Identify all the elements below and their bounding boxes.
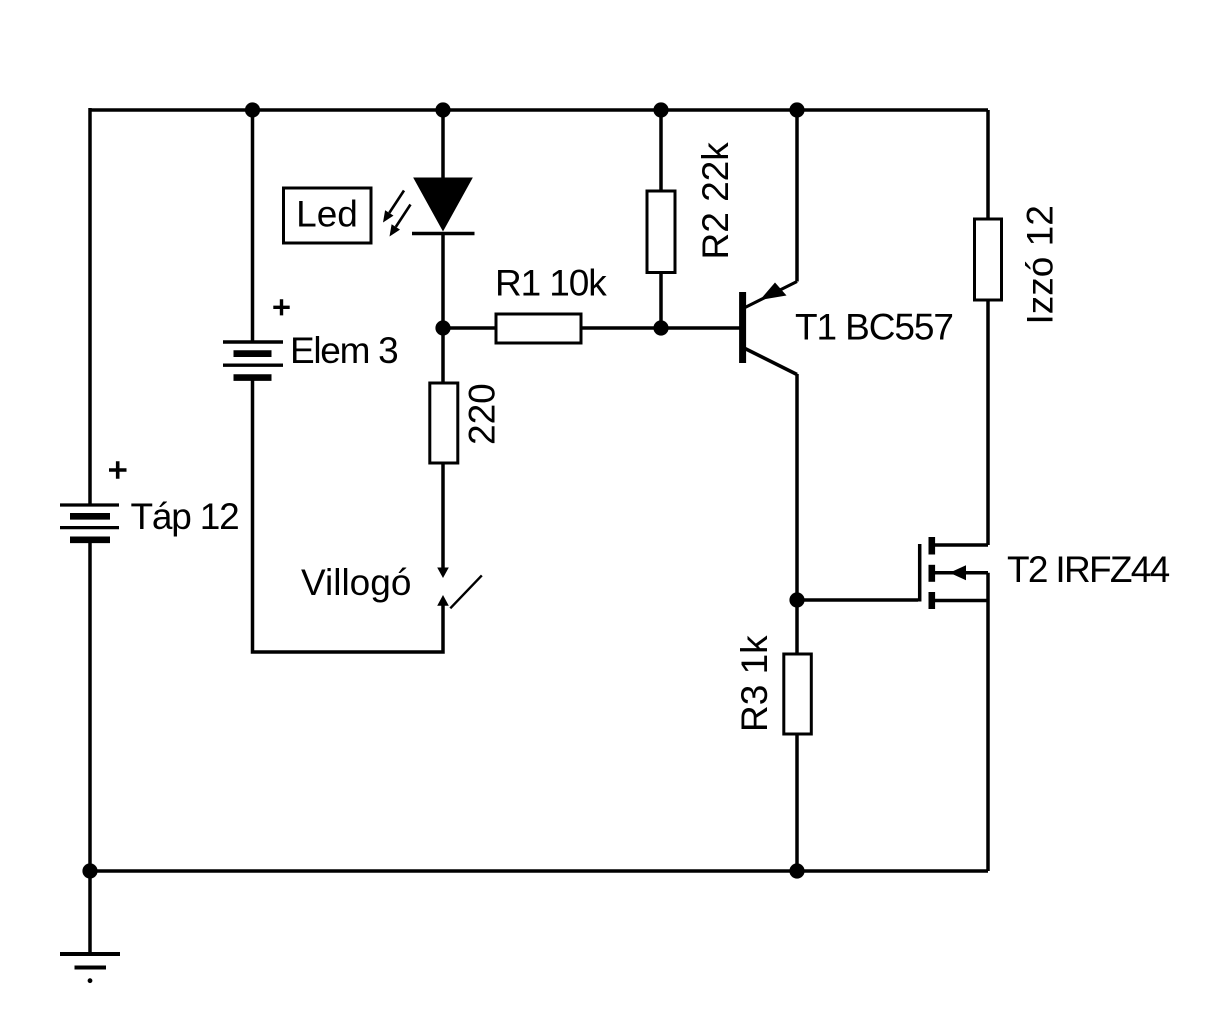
wire T2 source xyxy=(934,599,988,603)
switch Villogo xyxy=(437,568,482,609)
label T1 BC557 xyxy=(795,307,953,348)
wire T2 drain xyxy=(934,300,988,545)
wire left vertical (V+ to Tap battery) xyxy=(88,108,92,504)
battery Tap 12 xyxy=(60,505,119,540)
transistor T1 BC557 base bar xyxy=(739,292,746,363)
LED light arrow 1 xyxy=(383,191,404,223)
battery Elem 3 xyxy=(223,342,283,378)
svg-text:Villogó: Villogó xyxy=(301,562,411,603)
node bottom rail / R3 junction xyxy=(789,863,804,878)
wire top rail xyxy=(90,108,988,112)
resistor R2 22k xyxy=(647,142,736,273)
wire right vertical lower (source to bottom rail) xyxy=(986,573,990,871)
svg-text:Táp 12: Táp 12 xyxy=(131,496,239,537)
node top rail / R2 branch xyxy=(653,102,668,117)
svg-text:R1 10k: R1 10k xyxy=(495,263,607,304)
wire LED cathode down to node xyxy=(441,234,445,329)
wire gate lead xyxy=(797,598,918,602)
svg-text:T2 IRFZ44: T2 IRFZ44 xyxy=(1007,549,1170,590)
svg-text:Izzó 12: Izzó 12 xyxy=(1020,205,1061,324)
svg-text:T1 BC557: T1 BC557 xyxy=(795,307,953,348)
lamp Izzo 12 xyxy=(975,110,1061,325)
ground xyxy=(60,871,120,983)
wire top rail to LED anode xyxy=(441,110,445,179)
transistor T1 collector xyxy=(745,349,797,601)
node R1/R2/base junction xyxy=(653,320,668,335)
transistor T2 gate bar xyxy=(918,544,922,602)
node T1 collector / gate / R3 junction xyxy=(789,592,804,607)
LED diode xyxy=(412,178,475,234)
node top rail / T1 emitter xyxy=(789,102,804,117)
svg-text:Elem 3: Elem 3 xyxy=(290,330,397,371)
node top rail / LED branch xyxy=(435,102,450,117)
svg-text:Led: Led xyxy=(296,194,358,235)
wire Elem 3 branch upper xyxy=(251,110,255,342)
LED light arrow 2 xyxy=(390,205,411,237)
plus sign of Elem 3 xyxy=(273,299,289,315)
node LED/R1/220 junction xyxy=(435,320,450,335)
label Elem 3 xyxy=(290,330,397,371)
svg-text:R2 22k: R2 22k xyxy=(695,142,736,260)
resistor R1 10k xyxy=(495,263,607,344)
label T2 IRFZ44 xyxy=(1007,549,1170,590)
node bottom-left junction xyxy=(82,863,97,878)
transistor T1 emitter with arrow xyxy=(745,110,797,308)
wire R3 branch vertical xyxy=(795,600,799,871)
transistor T2 body arrow xyxy=(934,565,988,580)
wire Elem 3 minus to switch bottom xyxy=(253,378,444,652)
svg-text:R3 1k: R3 1k xyxy=(734,635,775,732)
wire 220 branch down to switch xyxy=(441,328,445,569)
wire R2 branch vertical xyxy=(659,110,663,328)
Led label box xyxy=(284,188,372,243)
resistor 220 xyxy=(430,383,503,463)
wire node to T1 base (horizontal) xyxy=(443,326,740,330)
wire left vertical lower (battery minus to bottom rail) xyxy=(88,541,92,871)
plus sign of Tap 12 xyxy=(109,461,127,479)
svg-text:220: 220 xyxy=(462,383,503,445)
transistor T2 channel bars xyxy=(928,537,935,609)
resistor R3 1k xyxy=(734,635,811,734)
label Villogo xyxy=(301,562,411,603)
wire bottom rail xyxy=(90,869,988,873)
node top rail / Elem branch xyxy=(245,102,260,117)
label Tap 12 xyxy=(131,496,239,537)
